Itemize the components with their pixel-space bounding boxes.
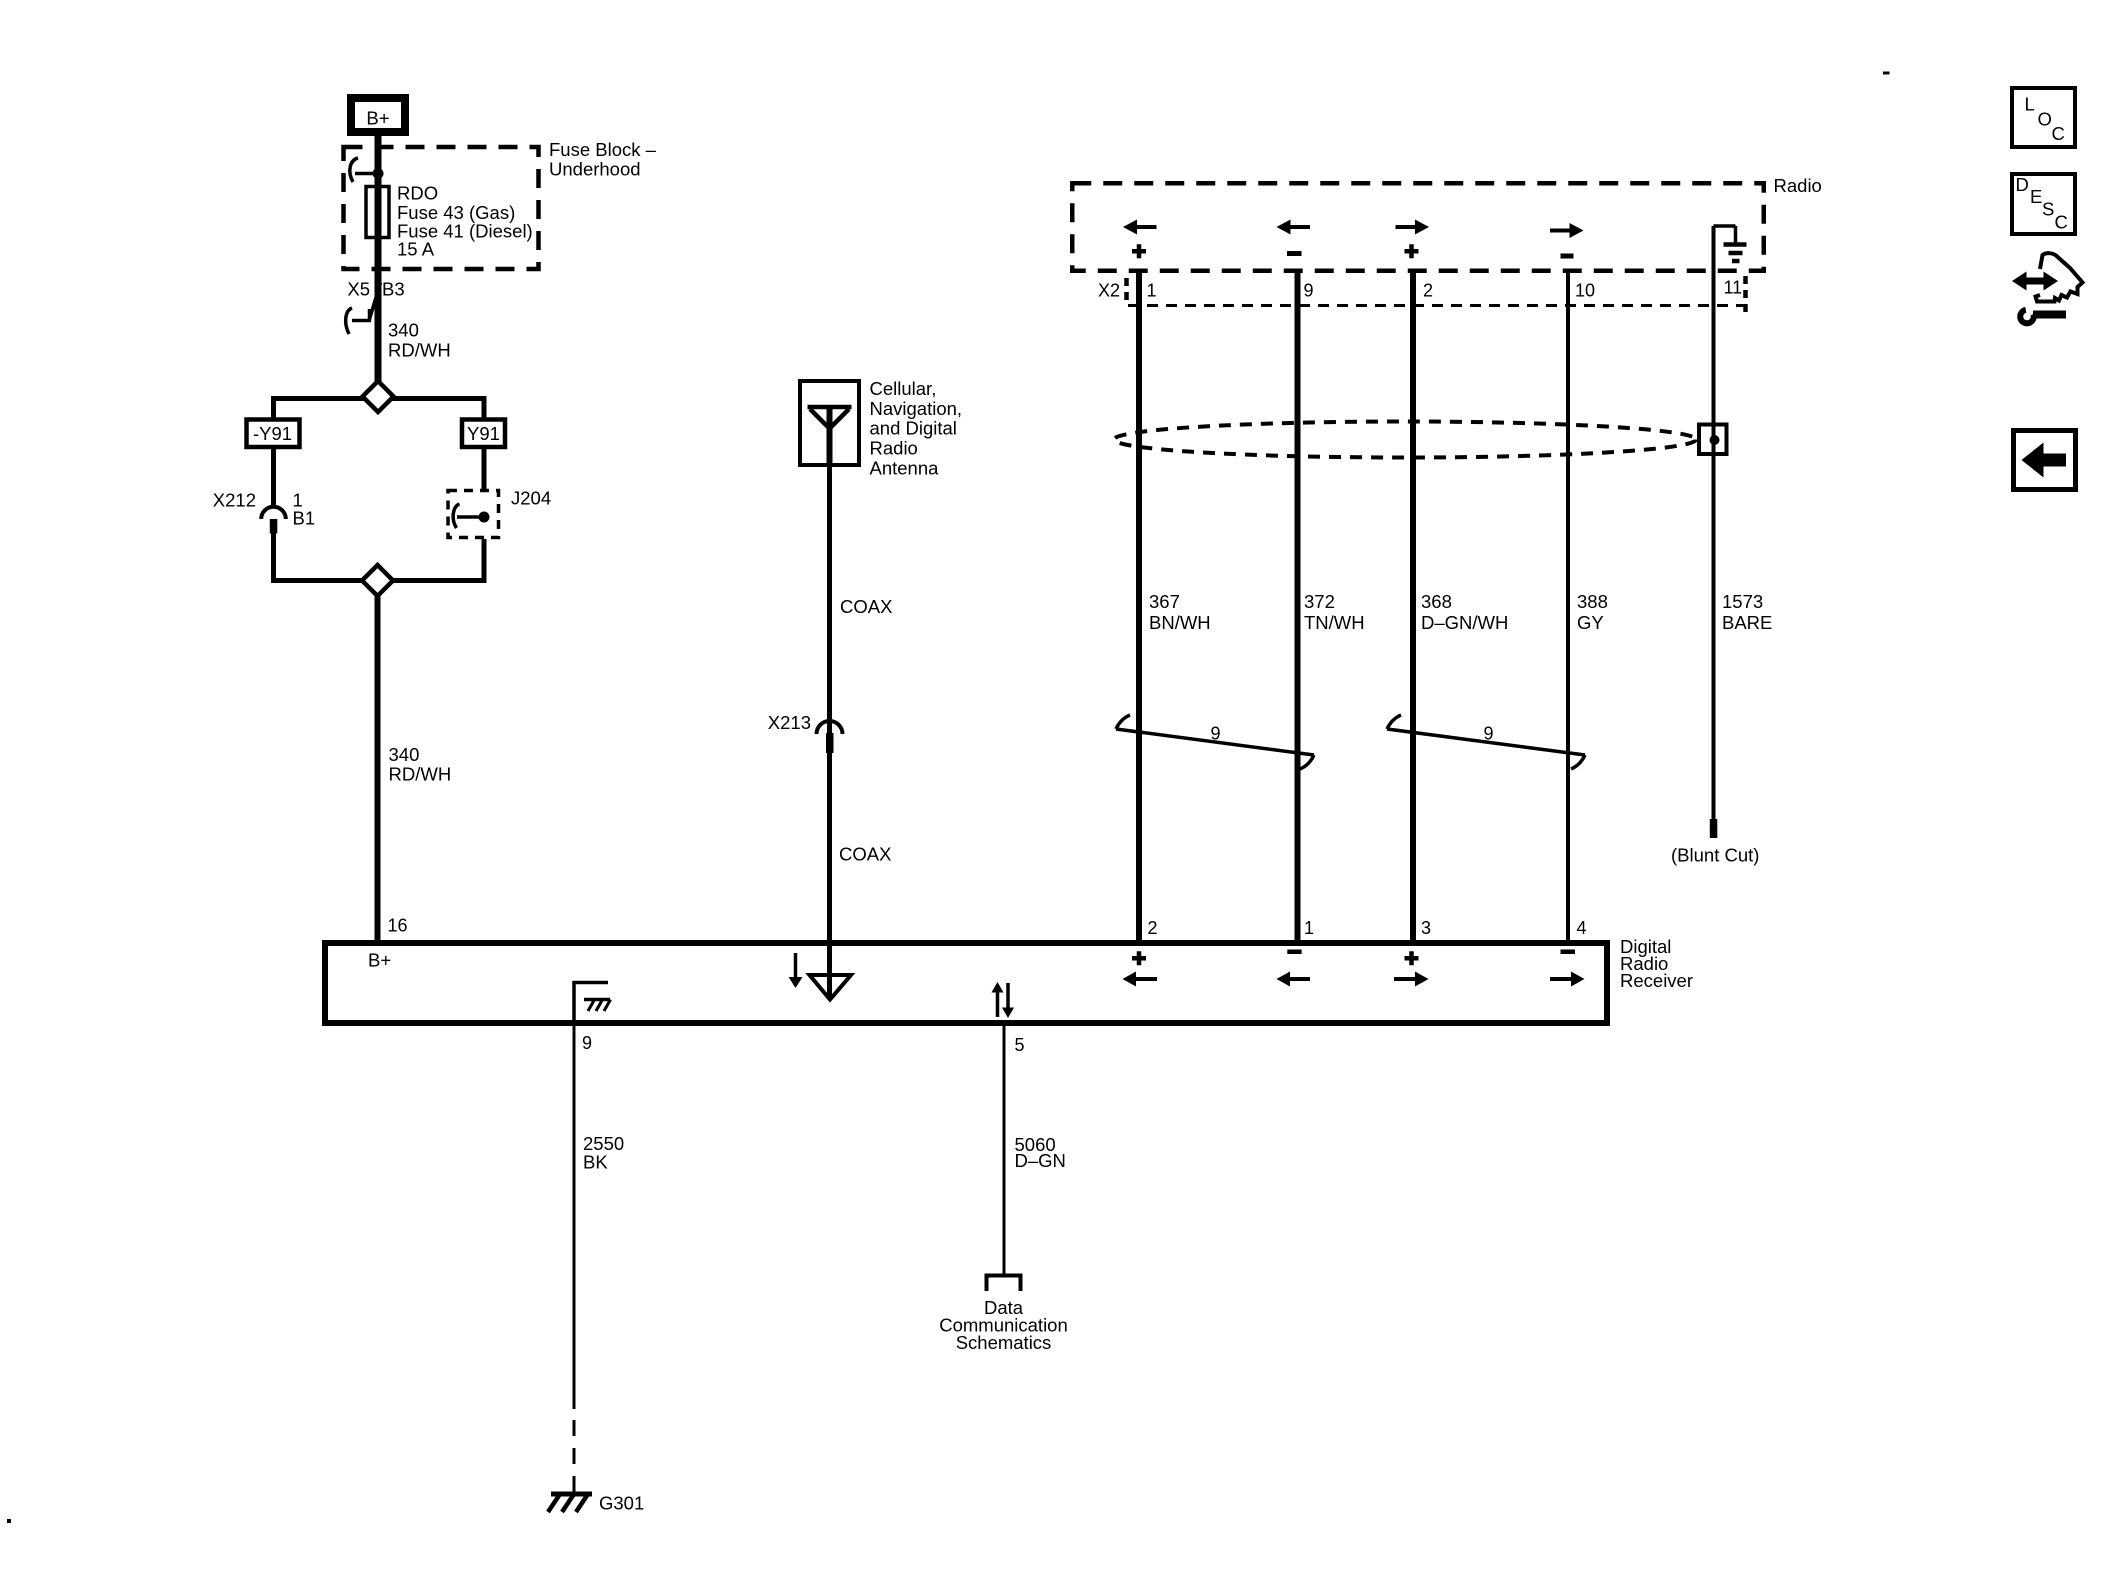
- svg-text:COAX: COAX: [839, 844, 891, 865]
- svg-text:L: L: [2025, 94, 2035, 115]
- serial data up/down arrows: [992, 982, 1015, 1018]
- svg-text:5: 5: [1015, 1035, 1025, 1055]
- connector X212 symbol: [261, 507, 286, 534]
- wire label 1573 BARE: [1722, 591, 1772, 633]
- svg-text:B+: B+: [366, 108, 389, 129]
- svg-text:RD/WH: RD/WH: [389, 764, 452, 785]
- radio dashed box: [1072, 183, 1764, 271]
- wire right branch to Y91: [482, 396, 487, 420]
- svg-text:388: 388: [1577, 591, 1608, 612]
- wire left branch to -Y91: [271, 396, 276, 420]
- wire 5060 D-GN: [1003, 1026, 1006, 1274]
- radio pin 11 internal ground: [1714, 226, 1747, 261]
- radio pin 10 right arrow: [1550, 223, 1584, 238]
- svg-text:11: 11: [1724, 278, 1743, 298]
- shield termination box with dot: [1699, 424, 1727, 455]
- connector X2 left edge dashes: [1124, 278, 1129, 302]
- icon LOC box: [2012, 88, 2075, 147]
- svg-text:2: 2: [1148, 918, 1158, 938]
- receiver pin 2 left arrow: [1123, 972, 1158, 987]
- svg-text:J204: J204: [511, 488, 551, 509]
- svg-text:367: 367: [1149, 591, 1180, 612]
- scan artifact bottom left: [7, 1519, 11, 1523]
- svg-text:(Blunt Cut): (Blunt Cut): [1671, 845, 1759, 866]
- svg-text:BK: BK: [583, 1152, 608, 1173]
- radio pin 10 minus sign: [1561, 254, 1574, 259]
- fuse block underhood dashed box: [344, 147, 539, 269]
- receiver pin 4 minus sign: [1561, 950, 1576, 955]
- receiver pin 3 right arrow: [1394, 972, 1429, 987]
- connector X5/B3 symbol: [346, 283, 381, 335]
- svg-text:G301: G301: [599, 1493, 644, 1514]
- radio pin 1 left arrow: [1123, 220, 1157, 235]
- splice diamond bottom: [362, 565, 393, 596]
- icon jump double arrow: [2012, 272, 2058, 291]
- svg-text:Navigation,: Navigation,: [870, 398, 963, 419]
- receiver pin 2 plus sign: [1132, 951, 1146, 965]
- svg-text:D–GN/WH: D–GN/WH: [1421, 612, 1508, 633]
- wire label 367 BN/WH: [1149, 591, 1211, 633]
- wire 388 GY: [1566, 270, 1570, 943]
- connector X212 labels: [213, 490, 315, 529]
- svg-text:9: 9: [1211, 724, 1221, 744]
- wire Y91 to J204: [482, 447, 487, 491]
- antenna label: [870, 378, 963, 478]
- receiver pin 1 left arrow: [1277, 972, 1311, 987]
- radio pin 2 plus sign: [1405, 244, 1419, 258]
- wire J204 to bottom loop: [482, 539, 487, 583]
- svg-text:COAX: COAX: [840, 596, 892, 617]
- ground G301 symbol: [548, 1494, 592, 1512]
- svg-text:Radio: Radio: [1774, 175, 1822, 196]
- svg-text:16: 16: [388, 916, 408, 936]
- svg-text:O: O: [2038, 109, 2052, 130]
- svg-text:TN/WH: TN/WH: [1304, 612, 1365, 633]
- wire bottom loop horizontal: [274, 578, 485, 583]
- blunt cut wire end: [1710, 819, 1718, 838]
- wire -Y91 to X212: [271, 447, 276, 506]
- receiver pin 4 right arrow: [1550, 972, 1585, 987]
- svg-text:E: E: [2030, 186, 2042, 207]
- splice diamond top: [363, 381, 394, 412]
- svg-text:1573: 1573: [1722, 591, 1763, 612]
- fuse block label: [549, 139, 657, 180]
- svg-text:9: 9: [1304, 281, 1314, 301]
- svg-text:BN/WH: BN/WH: [1149, 612, 1211, 633]
- splice J204 symbol: [453, 504, 489, 528]
- svg-text:9: 9: [1484, 724, 1494, 744]
- connector X5 pin B3 labels: [347, 279, 404, 300]
- receiver coax input arrow: [810, 943, 852, 1000]
- antenna symbol: [808, 407, 852, 465]
- svg-text:340: 340: [389, 744, 420, 765]
- svg-text:C: C: [2055, 212, 2068, 233]
- svg-text:15 A: 15 A: [397, 239, 435, 260]
- svg-text:3: 3: [1421, 918, 1431, 938]
- antenna module -Y91 box: [247, 420, 300, 448]
- wire label 2550 BK: [583, 1133, 624, 1173]
- connector X2 right edge dashes: [1743, 276, 1748, 312]
- radio pin 9 left arrow: [1277, 220, 1311, 235]
- shield drain symbol right: [1387, 715, 1585, 769]
- wire label 340 RD/WH upper: [388, 320, 451, 361]
- svg-text:Antenna: Antenna: [870, 457, 940, 478]
- svg-text:X2: X2: [1098, 281, 1120, 301]
- svg-text:Fuse Block –: Fuse Block –: [549, 139, 657, 160]
- svg-text:RD/WH: RD/WH: [388, 340, 451, 361]
- svg-text:GY: GY: [1577, 612, 1604, 633]
- svg-text:Cellular,: Cellular,: [870, 378, 937, 399]
- svg-text:372: 372: [1304, 591, 1335, 612]
- wire label 5060 D-GN: [1015, 1134, 1066, 1171]
- label Data Communication Schematics: [939, 1297, 1068, 1353]
- svg-text:D: D: [2016, 174, 2029, 195]
- wire COAX antenna to receiver: [827, 465, 832, 943]
- icon jump outline shape: [2036, 253, 2083, 301]
- svg-text:9: 9: [582, 1033, 592, 1053]
- svg-text:340: 340: [388, 320, 419, 341]
- receiver pin 1 minus sign: [1287, 950, 1301, 955]
- svg-text:B+: B+: [368, 950, 391, 971]
- twisted pair ellipse: [1114, 422, 1696, 458]
- connector X213 symbol: [817, 721, 843, 753]
- svg-text:X212: X212: [213, 490, 256, 511]
- svg-text:RDO: RDO: [397, 183, 438, 204]
- wire top loop horizontal: [274, 396, 485, 401]
- fuse value label: [397, 183, 533, 260]
- wire 340 RD/WH splice to receiver pin 16: [375, 594, 381, 943]
- shield drain symbol left: [1116, 715, 1314, 769]
- icon jump wrench: [2020, 310, 2066, 323]
- svg-text:368: 368: [1421, 591, 1452, 612]
- wire B+ feed to splice: [375, 136, 382, 383]
- svg-text:X5: X5: [347, 279, 370, 300]
- svg-text:X213: X213: [768, 712, 811, 733]
- radio pin 9 minus sign: [1287, 251, 1302, 256]
- digital radio receiver box: [325, 943, 1607, 1023]
- svg-text:BARE: BARE: [1722, 612, 1772, 633]
- wire 1573 BARE: [1712, 226, 1716, 819]
- scan artifact top right: [1883, 72, 1890, 75]
- icon back arrow box: [2014, 431, 2076, 490]
- wire 368 D-GN/WH: [1410, 270, 1416, 943]
- svg-text:B3: B3: [382, 279, 405, 300]
- wire 2550 BK dashed: [573, 1420, 576, 1492]
- svg-text:10: 10: [1575, 281, 1595, 301]
- antenna module Y91 box: [462, 420, 505, 448]
- connector X2 strip dashed line: [1128, 304, 1748, 307]
- icon DESC box: [2012, 174, 2075, 234]
- svg-text:Schematics: Schematics: [956, 1332, 1052, 1353]
- receiver pin 3 plus sign: [1405, 951, 1419, 965]
- off-page connector bracket: [987, 1276, 1021, 1292]
- svg-text:S: S: [2042, 199, 2054, 220]
- splice J204 dashed box: [448, 491, 499, 538]
- svg-text:2: 2: [1423, 281, 1433, 301]
- svg-text:Y91: Y91: [467, 423, 500, 444]
- wire label 368 D-GN/WH: [1421, 591, 1508, 633]
- radio pin 2 right arrow: [1396, 220, 1430, 235]
- svg-text:-Y91: -Y91: [253, 423, 292, 444]
- antenna box: [800, 381, 859, 465]
- wire label 372 TN/WH: [1304, 591, 1365, 633]
- small down arrow inside receiver: [789, 953, 803, 988]
- svg-text:B1: B1: [293, 508, 316, 529]
- svg-text:1: 1: [1304, 918, 1314, 938]
- connector terminal at fuse block input: [350, 158, 384, 182]
- fuse RDO Fuse 43/41 15A: [366, 187, 389, 238]
- svg-text:and Digital: and Digital: [870, 418, 957, 439]
- wire label 388 GY: [1577, 591, 1608, 633]
- svg-text:4: 4: [1577, 918, 1587, 938]
- wire 2550 BK solid: [573, 1026, 576, 1409]
- svg-text:D–GN: D–GN: [1015, 1150, 1066, 1171]
- radio pin 1 plus sign: [1132, 244, 1146, 258]
- power symbol B+ box: [351, 98, 405, 132]
- wire label 340 RD/WH lower: [389, 744, 452, 785]
- svg-text:Underhood: Underhood: [549, 159, 641, 180]
- svg-text:1: 1: [1147, 281, 1157, 301]
- svg-text:Radio: Radio: [870, 438, 918, 459]
- wire 372 TN/WH: [1295, 270, 1301, 943]
- wire 367 BN/WH: [1136, 270, 1142, 943]
- svg-text:C: C: [2052, 123, 2065, 144]
- receiver internal ground symbol: [573, 981, 611, 1026]
- receiver label: [1620, 936, 1693, 991]
- svg-text:Receiver: Receiver: [1620, 970, 1693, 991]
- wire X212 to bottom loop: [271, 533, 276, 583]
